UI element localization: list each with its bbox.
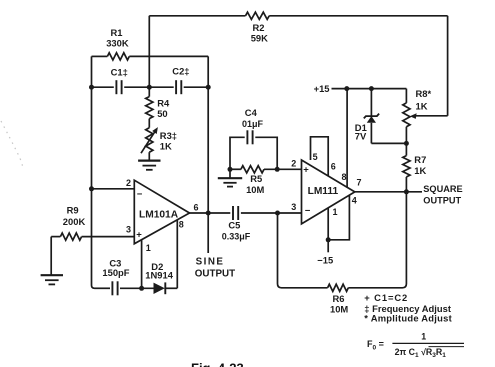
ground below R9 bbox=[41, 275, 63, 284]
label U2 plus input bbox=[303, 164, 309, 175]
wire R1 top horizontal bbox=[92, 55, 209, 57]
svg-text:+: + bbox=[136, 229, 142, 240]
node C1 left junction bbox=[89, 85, 94, 90]
svg-text:+15: +15 bbox=[314, 83, 330, 94]
svg-text:OUTPUT: OUTPUT bbox=[195, 268, 235, 279]
ground below C4-R5 bbox=[218, 178, 242, 186]
node C2 right junction bbox=[206, 85, 211, 90]
pin 3 label U1 bbox=[126, 225, 131, 235]
pin 1 label U1 bbox=[146, 243, 151, 253]
node pin1 bottom junction bbox=[139, 286, 144, 291]
svg-text:0.33μF: 0.33μF bbox=[222, 232, 251, 242]
wire R3 ground stem bbox=[148, 152, 150, 160]
svg-text:3: 3 bbox=[291, 202, 296, 212]
svg-text:3: 3 bbox=[126, 225, 131, 235]
op-amp U1 LM101A bbox=[134, 180, 189, 244]
svg-text:1K: 1K bbox=[414, 165, 426, 176]
wire U1 pin6 row bbox=[190, 212, 302, 214]
svg-text:1: 1 bbox=[146, 243, 151, 253]
resistor R1 bbox=[107, 53, 129, 60]
svg-text:R6: R6 bbox=[333, 293, 345, 304]
formula frequency bbox=[367, 332, 464, 359]
resistor R6 bbox=[328, 284, 349, 291]
wire U2 pin1 drop bbox=[327, 208, 329, 252]
node sine output junction bbox=[206, 211, 211, 216]
label C3 value bbox=[102, 257, 129, 278]
node D1 supply junction bbox=[369, 86, 374, 91]
resistor R4 bbox=[146, 97, 153, 119]
label R8 value bbox=[416, 88, 432, 111]
label R1 value bbox=[106, 27, 129, 48]
wire bottom feedback row bbox=[95, 287, 178, 289]
wire R7 top lead bbox=[405, 143, 407, 155]
svg-text:2: 2 bbox=[126, 178, 131, 188]
wire R5 row bbox=[230, 168, 302, 170]
label R6 value bbox=[330, 293, 348, 315]
svg-text:* Amplitude Adjust: * Amplitude Adjust bbox=[364, 313, 452, 324]
ground below R3 bbox=[138, 161, 160, 170]
svg-text:1K: 1K bbox=[416, 100, 428, 111]
pin 5 label U2 bbox=[313, 152, 318, 162]
resistor R2 bbox=[246, 12, 270, 19]
wire U1 pin2 bbox=[92, 188, 135, 190]
svg-text:6: 6 bbox=[331, 161, 336, 171]
resistor R8 (pot) bbox=[403, 103, 410, 127]
label -15 supply bbox=[317, 255, 333, 266]
node R8 bottom junction bbox=[404, 141, 409, 146]
wire R8 top lead bbox=[405, 89, 407, 103]
wire scan artifact (faint) bbox=[1, 121, 22, 168]
wire top rail bbox=[149, 15, 447, 17]
label U2 minus input bbox=[305, 206, 311, 217]
svg-text:+ C1=C2: + C1=C2 bbox=[364, 292, 408, 303]
node U2 pin3 junction bbox=[275, 211, 280, 216]
capacitor C1 bbox=[116, 80, 121, 94]
label C4 value bbox=[242, 107, 264, 129]
label R9 value bbox=[63, 205, 86, 227]
pin 1 label U2 bbox=[333, 207, 338, 217]
arrow R8 wiper head bbox=[410, 113, 417, 119]
svg-text:SQUARE: SQUARE bbox=[423, 184, 462, 194]
label U1 minus input bbox=[137, 189, 143, 200]
svg-text:7: 7 bbox=[357, 178, 362, 188]
label R3 value bbox=[160, 130, 177, 151]
svg-text:8: 8 bbox=[342, 172, 347, 182]
svg-text:10M: 10M bbox=[330, 303, 348, 314]
svg-text:50: 50 bbox=[157, 108, 167, 119]
pin 8 label U1 bbox=[179, 220, 184, 230]
svg-text:1: 1 bbox=[421, 332, 426, 342]
svg-text:C1‡: C1‡ bbox=[111, 67, 128, 78]
svg-text:R3‡: R3‡ bbox=[160, 130, 177, 141]
svg-text:1: 1 bbox=[333, 207, 338, 217]
capacitor C3 bbox=[112, 281, 117, 295]
resistor R9 bbox=[60, 233, 81, 240]
pin 7 label U2 bbox=[357, 178, 362, 188]
wire U1 pin1 riser bbox=[141, 240, 143, 289]
wire U2 pin4 bbox=[328, 195, 349, 240]
wire top rail drop to C1-C2 node bbox=[148, 16, 150, 87]
capacitor C4 bbox=[247, 130, 252, 144]
node pin8 supply junction bbox=[344, 86, 349, 91]
wire R2 right drop bbox=[447, 16, 449, 116]
svg-text:8: 8 bbox=[179, 220, 184, 230]
svg-text:C5: C5 bbox=[228, 220, 240, 231]
label D2 value bbox=[145, 261, 173, 281]
svg-text:−: − bbox=[137, 189, 143, 200]
svg-text:2: 2 bbox=[291, 159, 296, 169]
capacitor C5 bbox=[233, 206, 238, 220]
pin 4 label U2 bbox=[352, 195, 357, 205]
comparator U2 LM111 bbox=[302, 160, 355, 224]
svg-text:5: 5 bbox=[313, 152, 318, 162]
label R4 value bbox=[157, 98, 170, 120]
node -15 junction bbox=[326, 237, 331, 242]
svg-text:R5: R5 bbox=[250, 173, 262, 184]
label SINE OUTPUT bbox=[195, 257, 235, 280]
wire D1 cathode lead bbox=[370, 89, 372, 116]
svg-text:4: 4 bbox=[352, 195, 357, 205]
wire R4-R3 link bbox=[148, 119, 150, 128]
svg-text:R4: R4 bbox=[157, 98, 170, 109]
svg-text:6: 6 bbox=[194, 202, 199, 212]
label R7 value bbox=[414, 154, 426, 176]
note frequency adjust bbox=[364, 303, 451, 314]
label figure caption (clipped) bbox=[191, 361, 244, 367]
svg-text:−: − bbox=[305, 206, 311, 217]
svg-text:OUTPUT: OUTPUT bbox=[423, 195, 461, 205]
pin 8 label U2 bbox=[342, 172, 347, 182]
svg-text:200K: 200K bbox=[63, 216, 86, 227]
wire C4 loop bbox=[230, 137, 277, 169]
node R5 left junction bbox=[228, 167, 233, 172]
wire R8 wiper from R2 bbox=[415, 115, 448, 117]
resistor R3 (variable) bbox=[146, 128, 153, 153]
node U1 pin2 junction bbox=[89, 186, 94, 191]
pin 2 label U1 bbox=[126, 178, 131, 188]
label SQUARE OUTPUT bbox=[423, 184, 462, 205]
wire +15 rail bbox=[332, 88, 407, 90]
svg-text:330K: 330K bbox=[106, 37, 129, 48]
label +15 supply bbox=[314, 83, 330, 94]
wire U1 pin8 riser bbox=[176, 220, 178, 288]
pin 3 label U2 bbox=[291, 202, 296, 212]
wire C1-C2 row bbox=[92, 86, 209, 88]
svg-text:1K: 1K bbox=[160, 141, 172, 152]
svg-text:7V: 7V bbox=[355, 130, 367, 141]
label R5 value bbox=[246, 173, 264, 195]
diode D1 zener bbox=[364, 114, 379, 123]
svg-text:1N914: 1N914 bbox=[145, 270, 173, 281]
node square output junction bbox=[404, 189, 409, 194]
label R2 value bbox=[251, 22, 268, 44]
arrow R3 wiper bbox=[141, 127, 158, 153]
svg-text:C2‡: C2‡ bbox=[172, 66, 189, 77]
svg-text:LM101A: LM101A bbox=[139, 210, 179, 221]
label U1 plus input bbox=[136, 229, 142, 240]
resistor R7 bbox=[403, 156, 410, 177]
wire R9 ground stem bbox=[50, 237, 52, 275]
svg-text:Fig. 4-23: Fig. 4-23 bbox=[191, 361, 244, 367]
diode D2 bbox=[154, 282, 166, 294]
svg-text:−15: −15 bbox=[317, 255, 333, 266]
resistor R5 bbox=[241, 166, 264, 173]
wire R8 bottom lead bbox=[405, 127, 407, 144]
svg-text:+: + bbox=[303, 164, 309, 175]
svg-text:R9: R9 bbox=[67, 205, 79, 216]
wire U2 balance strap bbox=[311, 137, 329, 176]
wire R7 bottom lead bbox=[405, 177, 407, 192]
wire R4 top lead bbox=[148, 87, 150, 96]
svg-text:C4: C4 bbox=[245, 107, 258, 118]
wire sine output stub bbox=[207, 213, 209, 253]
svg-text:59K: 59K bbox=[251, 33, 268, 44]
wire right rail bbox=[207, 56, 209, 213]
label C2 bbox=[172, 66, 189, 77]
node R5 right junction bbox=[275, 167, 280, 172]
svg-text:R8*: R8* bbox=[416, 88, 432, 99]
svg-text:R2: R2 bbox=[253, 22, 265, 33]
wire U2 pin8 riser bbox=[346, 89, 348, 188]
svg-text:150pF: 150pF bbox=[102, 267, 129, 278]
note amplitude adjust bbox=[364, 313, 452, 324]
wire R6 loop bbox=[278, 192, 407, 288]
node C1-C2 midpoint junction bbox=[147, 85, 152, 90]
label C1 bbox=[111, 67, 128, 78]
svg-text:R7: R7 bbox=[414, 154, 426, 165]
wire D1 anode lead bbox=[371, 123, 406, 144]
svg-text:01μF: 01μF bbox=[242, 119, 264, 129]
svg-text:10M: 10M bbox=[246, 184, 264, 195]
wire left rail (summing node) bbox=[92, 56, 95, 288]
note C1=C2 bbox=[364, 292, 408, 303]
label D1 value bbox=[355, 122, 367, 141]
svg-text:SINE: SINE bbox=[196, 257, 225, 268]
pin 6 label U1 bbox=[194, 202, 199, 212]
wire C4 ground stem bbox=[229, 169, 231, 178]
svg-text:LM111: LM111 bbox=[308, 186, 339, 197]
pin 2 label U2 bbox=[291, 159, 296, 169]
pin 6 label U2 bbox=[331, 161, 336, 171]
wire R9 row bbox=[51, 236, 134, 238]
capacitor C2 bbox=[176, 80, 181, 94]
label C5 value bbox=[222, 220, 251, 242]
wire U2 output bbox=[355, 191, 422, 193]
